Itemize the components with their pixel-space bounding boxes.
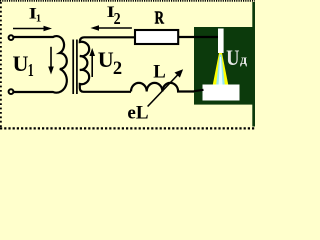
svg-text:1: 1 — [36, 14, 41, 25]
svg-text:д: д — [240, 52, 247, 67]
svg-text:eL: eL — [127, 103, 148, 124]
svg-text:U: U — [226, 46, 239, 70]
svg-text:1: 1 — [28, 62, 34, 81]
svg-text:U: U — [98, 47, 114, 72]
svg-text:L: L — [153, 61, 166, 82]
svg-text:2: 2 — [114, 10, 121, 28]
svg-text:R: R — [155, 8, 165, 28]
svg-text:U: U — [13, 51, 29, 76]
svg-text:2: 2 — [113, 58, 122, 80]
